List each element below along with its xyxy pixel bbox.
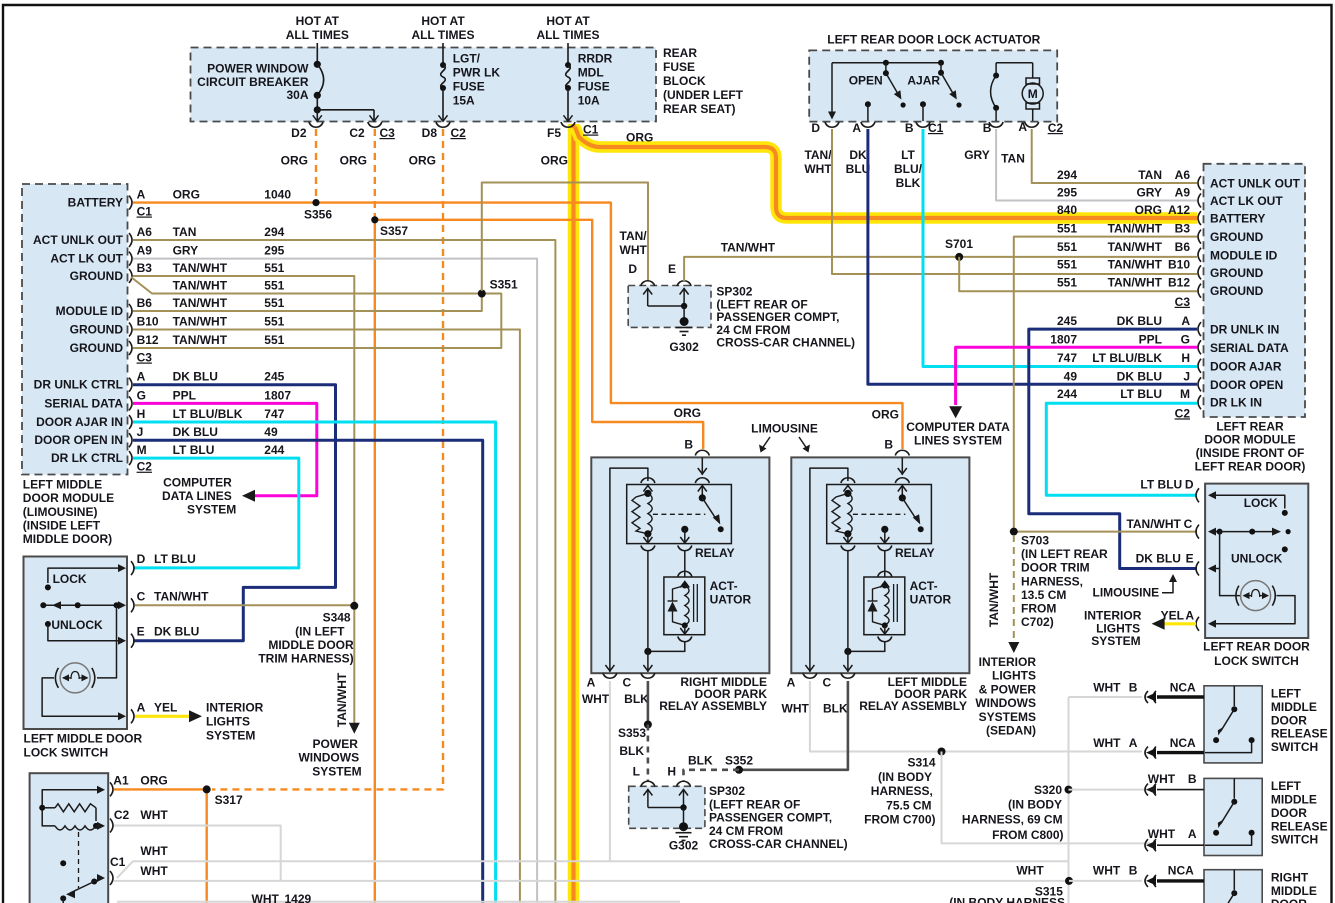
svg-text:FROM: FROM xyxy=(1021,602,1056,616)
wire LT BLU/BLK 747: module H down page xyxy=(133,422,496,903)
wire DK BLU 245: module A to left lock switch E xyxy=(133,385,336,641)
svg-text:ACT UNLK OUT: ACT UNLK OUT xyxy=(1210,177,1301,191)
svg-text:HOT AT: HOT AT xyxy=(546,14,590,28)
junction S317 xyxy=(203,785,243,807)
svg-text:A: A xyxy=(137,700,146,714)
svg-text:RIGHT: RIGHT xyxy=(1271,870,1309,884)
svg-text:PASSENGER COMPT,: PASSENGER COMPT, xyxy=(709,811,832,825)
svg-text:DOOR OPEN IN: DOOR OPEN IN xyxy=(34,433,123,447)
labels ORG on highlighted wire xyxy=(541,131,654,168)
arrow + label COMPUTER DATA LINES SYSTEM (right) xyxy=(906,406,1010,448)
svg-text:LOCK SWITCH: LOCK SWITCH xyxy=(24,746,109,760)
wire WHT long row (upper) from C1 to right network xyxy=(117,861,1069,878)
svg-text:AJAR: AJAR xyxy=(907,73,940,87)
svg-text:295: 295 xyxy=(1057,186,1077,200)
wire WHT row to release switch 3 B xyxy=(1069,880,1142,882)
actuator: LEFT REAR DOOR LOCK ACTUATOR (box) xyxy=(809,50,1057,121)
svg-text:245: 245 xyxy=(264,370,284,384)
svg-text:295: 295 xyxy=(264,244,284,258)
svg-text:LT BLU/BLK: LT BLU/BLK xyxy=(1092,351,1162,365)
svg-text:ORG: ORG xyxy=(140,774,167,788)
svg-text:POWER: POWER xyxy=(313,737,359,751)
svg-text:TAN/WHT: TAN/WHT xyxy=(1126,517,1181,531)
svg-text:ACT LK OUT: ACT LK OUT xyxy=(50,252,123,266)
svg-text:SERIAL DATA: SERIAL DATA xyxy=(1210,341,1289,355)
svg-text:GROUND: GROUND xyxy=(1210,284,1264,298)
svg-text:YEL: YEL xyxy=(154,700,177,714)
svg-text:294: 294 xyxy=(264,225,284,239)
svg-text:LEFT REAR DOOR LOCK ACTUATOR: LEFT REAR DOOR LOCK ACTUATOR xyxy=(827,33,1040,47)
junction S314 + label (IN BODY HARNESS, 75.5 CM FROM C700) xyxy=(864,748,945,827)
svg-text:1807: 1807 xyxy=(1050,332,1077,346)
svg-text:S351: S351 xyxy=(490,278,518,292)
svg-text:75.5 CM: 75.5 CM xyxy=(886,798,931,812)
svg-text:24 CM FROM: 24 CM FROM xyxy=(709,824,783,838)
labels B at relay top pins xyxy=(684,438,893,452)
svg-text:MODULE ID: MODULE ID xyxy=(1210,248,1278,262)
svg-text:COMPUTER: COMPUTER xyxy=(163,476,232,490)
labels WHT B NCA / WHT A NCA (switch 1) xyxy=(1093,680,1196,750)
svg-text:BLK: BLK xyxy=(688,754,713,768)
svg-text:245: 245 xyxy=(1057,314,1077,328)
wire WHT vertical trunk x=1068.5 xyxy=(1068,697,1070,903)
svg-text:UATOR: UATOR xyxy=(910,592,952,606)
svg-text:294: 294 xyxy=(1057,168,1077,182)
svg-text:ORG: ORG xyxy=(409,154,436,168)
svg-text:E: E xyxy=(1186,551,1194,565)
svg-text:PPL: PPL xyxy=(173,388,196,402)
wire WHT row to release switch 2 A xyxy=(1069,842,1151,844)
svg-text:ORG: ORG xyxy=(541,154,568,168)
svg-text:RRDR: RRDR xyxy=(578,52,613,66)
svg-text:SWITCH: SWITCH xyxy=(1271,833,1318,847)
svg-text:HARNESS,: HARNESS, xyxy=(871,784,933,798)
svg-text:D: D xyxy=(1185,477,1194,491)
svg-text:WHT: WHT xyxy=(582,692,610,706)
svg-text:J: J xyxy=(1183,369,1190,383)
svg-text:(INSIDE FRONT OF: (INSIDE FRONT OF xyxy=(1196,446,1305,460)
label LIMOUSINE with arrow to DK BLU wire xyxy=(1093,574,1177,600)
svg-text:TAN/WHT: TAN/WHT xyxy=(987,572,1001,627)
svg-text:840: 840 xyxy=(1057,203,1077,217)
fuse block pin brackets and labels D2 C2 C3 D8 C2 F5 C1 xyxy=(291,122,561,140)
svg-text:S317: S317 xyxy=(215,793,243,807)
wire GRY 295: module A9 down page xyxy=(133,259,537,903)
svg-text:TAN/WHT: TAN/WHT xyxy=(173,279,228,293)
svg-text:WHT: WHT xyxy=(1016,864,1044,878)
svg-text:ORG: ORG xyxy=(674,406,701,420)
svg-text:D: D xyxy=(811,121,820,135)
svg-text:C702): C702) xyxy=(1021,615,1054,629)
svg-text:DOOR: DOOR xyxy=(1271,713,1307,727)
svg-text:B: B xyxy=(1129,864,1138,878)
svg-text:B: B xyxy=(1188,772,1197,786)
svg-text:OPEN: OPEN xyxy=(849,73,883,87)
svg-text:244: 244 xyxy=(1057,387,1077,401)
svg-text:PPL: PPL xyxy=(1139,332,1162,346)
svg-text:UATOR: UATOR xyxy=(710,592,752,606)
svg-text:GRY: GRY xyxy=(173,244,199,258)
svg-text:B: B xyxy=(1129,680,1138,694)
right lock switch internals xyxy=(1208,491,1295,628)
svg-text:(IN BODY HARNESS: (IN BODY HARNESS xyxy=(949,896,1065,903)
svg-text:D: D xyxy=(137,552,146,566)
svg-text:A9: A9 xyxy=(1175,186,1191,200)
arrow + label COMPUTER DATA LINES SYSTEM (left) xyxy=(162,476,255,517)
svg-text:DK BLU: DK BLU xyxy=(173,370,218,384)
wire DK BLU: actuator A down to connector J row (DOOR OPEN) xyxy=(868,129,1197,384)
svg-text:C3: C3 xyxy=(1175,295,1191,309)
svg-text:A: A xyxy=(137,188,146,202)
svg-text:TAN/WHT: TAN/WHT xyxy=(173,315,228,329)
svg-text:NCA: NCA xyxy=(1170,680,1196,694)
svg-text:LT BLU/BLK: LT BLU/BLK xyxy=(173,407,243,421)
svg-text:WHT: WHT xyxy=(1093,864,1121,878)
svg-text:C: C xyxy=(137,589,146,603)
svg-text:C2: C2 xyxy=(349,126,365,140)
junction S353 + dashed BLK to SP302 L xyxy=(618,721,652,759)
junction S351 xyxy=(478,278,518,298)
bottom-left switch internals: resistor, coil, arm xyxy=(39,786,105,903)
svg-text:M: M xyxy=(137,443,147,457)
svg-text:CROSS-CAR CHANNEL): CROSS-CAR CHANNEL) xyxy=(716,336,855,350)
svg-text:GROUND: GROUND xyxy=(1210,266,1264,280)
svg-text:MIDDLE: MIDDLE xyxy=(1271,700,1317,714)
wire BLK: left relay C down, left to S352 xyxy=(741,681,848,770)
svg-text:WHT: WHT xyxy=(804,162,832,176)
connector module: LEFT REAR DOOR MODULE (box) xyxy=(1204,164,1306,417)
svg-text:B10: B10 xyxy=(1168,257,1190,271)
svg-text:ORG: ORG xyxy=(173,188,200,202)
svg-text:10A: 10A xyxy=(578,94,600,108)
wire TAN/WHT: SP302 E up to S701 row (B6) xyxy=(684,257,1197,281)
svg-text:A1: A1 xyxy=(113,774,129,788)
svg-text:A: A xyxy=(1129,736,1138,750)
svg-text:TAN: TAN xyxy=(1138,168,1162,182)
svg-text:551: 551 xyxy=(264,333,284,347)
wire TAN/WHT 551: connector B3 riser down to S703 xyxy=(1014,237,1197,532)
label TAN/WHT rotated + arrow to POWER WINDOWS SYSTEM xyxy=(298,672,361,778)
svg-text:D: D xyxy=(628,262,637,276)
svg-text:49: 49 xyxy=(1064,369,1078,383)
ground G302 (lower) xyxy=(669,822,699,852)
svg-text:DK BLU: DK BLU xyxy=(154,625,199,639)
right connector pin rows: numbers, colours, pins, names xyxy=(1050,168,1300,420)
label LEFT MIDDLE DOOR MODULE (LIMOUSINE) (INSIDE LEFT MIDDLE DOOR) xyxy=(23,478,114,546)
wire TAN/WHT 551 B6: module to S351 stub xyxy=(133,294,482,312)
wire YEL: left lock switch A to interior lights arrow xyxy=(135,715,190,718)
svg-text:DR LK CTRL: DR LK CTRL xyxy=(51,451,123,465)
svg-text:TAN/WHT: TAN/WHT xyxy=(173,296,228,310)
svg-text:LEFT REAR: LEFT REAR xyxy=(1216,419,1284,433)
junction S320 + label (IN BODY HARNESS, 69 CM FROM C800) xyxy=(962,783,1073,842)
label SP302 (LEFT REAR OF PASSENGER COMPT, 24 CM FROM CROSS-CAR CHANNEL) upper xyxy=(716,285,855,350)
svg-text:ORG: ORG xyxy=(340,154,367,168)
label LEFT REAR DOOR LOCK SWITCH xyxy=(1203,640,1310,668)
svg-text:A: A xyxy=(852,121,861,135)
wire WHT: right relay A down to long row xyxy=(609,681,611,861)
wire TAN/WHT 551 B10: module down page xyxy=(133,330,520,903)
svg-text:BLK: BLK xyxy=(624,692,649,706)
svg-text:GROUND: GROUND xyxy=(70,323,124,337)
svg-text:LEFT: LEFT xyxy=(1271,687,1302,701)
svg-text:LOCK: LOCK xyxy=(53,572,87,586)
svg-text:CIRCUIT BREAKER: CIRCUIT BREAKER xyxy=(197,75,309,89)
svg-text:A9: A9 xyxy=(137,244,153,258)
svg-text:C2: C2 xyxy=(114,808,130,822)
svg-text:F5: F5 xyxy=(547,126,561,140)
svg-text:NCA: NCA xyxy=(1170,736,1196,750)
svg-text:H: H xyxy=(1181,351,1190,365)
svg-text:FUSE: FUSE xyxy=(578,80,610,94)
labels WHT B NCA (switch 3) xyxy=(1093,864,1194,878)
svg-text:DOOR OPEN: DOOR OPEN xyxy=(1210,378,1283,392)
svg-text:TAN: TAN xyxy=(173,225,197,239)
svg-text:H: H xyxy=(667,765,676,779)
wire ORG: S357 drop down page xyxy=(374,220,376,903)
svg-text:FROM C700): FROM C700) xyxy=(864,812,935,826)
svg-text:(IN LEFT REAR: (IN LEFT REAR xyxy=(1021,547,1108,561)
splice SP302 upper (box) xyxy=(628,286,711,328)
svg-text:C1: C1 xyxy=(583,123,599,137)
junction S357 xyxy=(371,216,408,238)
svg-text:RELAY: RELAY xyxy=(895,546,935,560)
wire ORG 840 highlighted branch to right connector BATTERY A12 xyxy=(575,127,1197,218)
SP302 upper internals: pins D,E to ground xyxy=(628,262,691,322)
svg-text:& POWER: & POWER xyxy=(979,682,1037,696)
labels WHT at right network xyxy=(1016,864,1044,878)
svg-text:551: 551 xyxy=(1057,276,1077,290)
switch: bottom-left window switch (partial box) xyxy=(30,773,109,903)
svg-text:WHT: WHT xyxy=(252,892,280,903)
svg-text:BLK: BLK xyxy=(823,702,848,716)
svg-text:551: 551 xyxy=(1057,222,1077,236)
svg-text:(LEFT REAR OF: (LEFT REAR OF xyxy=(709,797,800,811)
svg-text:LEFT MIDDLE DOOR: LEFT MIDDLE DOOR xyxy=(24,732,143,746)
svg-text:S356: S356 xyxy=(304,208,332,222)
SP302 lower internals: pins L,H to ground xyxy=(633,765,691,827)
svg-text:TAN/WHT: TAN/WHT xyxy=(1108,240,1163,254)
svg-text:ACT-: ACT- xyxy=(910,579,938,593)
fuse LGT/PWR LK FUSE 15A xyxy=(439,52,501,122)
svg-text:C3: C3 xyxy=(380,126,396,140)
wire WHT: switch C2 down to lower row xyxy=(114,826,281,881)
fuse RRDR MDL FUSE 10A xyxy=(564,52,613,122)
svg-text:BLU/: BLU/ xyxy=(894,162,923,176)
junction S315 + label xyxy=(949,877,1073,903)
svg-text:A6: A6 xyxy=(1175,168,1191,182)
wire ORG 840 highlighted (yellow) vertical from fuse F5 to bottom xyxy=(568,124,580,903)
svg-text:551: 551 xyxy=(1057,257,1077,271)
wire TAN/WHT: S701 drop to B12 row xyxy=(959,257,1197,291)
svg-text:S703: S703 xyxy=(1021,534,1049,548)
wire PPL 1807: connector G to computer data lines arrow (right) xyxy=(956,347,1197,405)
svg-text:B: B xyxy=(905,121,914,135)
svg-text:E: E xyxy=(137,625,145,639)
wire DK BLU 49: module J down page xyxy=(133,440,483,903)
svg-text:LT BLU: LT BLU xyxy=(173,443,215,457)
svg-text:SYSTEM: SYSTEM xyxy=(206,729,255,743)
svg-text:D2: D2 xyxy=(291,126,307,140)
svg-text:MIDDLE DOOR: MIDDLE DOOR xyxy=(268,638,354,652)
left lock switch internals: LOCK/UNLOCK contacts, arm, lamp xyxy=(40,564,126,720)
rear fuse block (box) xyxy=(191,48,657,122)
svg-text:(IN LEFT: (IN LEFT xyxy=(295,624,345,638)
wire LT BLU 244: connector M to right lock switch D xyxy=(1046,403,1197,495)
svg-text:B6: B6 xyxy=(137,296,153,310)
svg-text:A: A xyxy=(1018,120,1027,134)
svg-text:BATTERY: BATTERY xyxy=(68,196,123,210)
svg-text:INTERIOR: INTERIOR xyxy=(979,655,1037,669)
wire ORG: switch A1 to S317 and down page xyxy=(114,788,207,790)
wire WHT long row (lower) from C1 to S315 xyxy=(114,880,1069,882)
svg-text:M: M xyxy=(1028,87,1038,101)
svg-text:WHT: WHT xyxy=(140,844,168,858)
wire WHT: S314 drop to switch2 A row xyxy=(942,752,1069,844)
svg-text:1807: 1807 xyxy=(264,388,291,402)
svg-text:(SEDAN): (SEDAN) xyxy=(986,724,1036,738)
svg-text:C3: C3 xyxy=(137,351,153,365)
node HOT AT ALL TIMES feed x=317.3 xyxy=(286,14,349,65)
svg-text:(LIMOUSINE): (LIMOUSINE) xyxy=(23,505,98,519)
svg-text:S320: S320 xyxy=(1034,783,1062,797)
svg-text:H: H xyxy=(137,407,146,421)
svg-text:C2: C2 xyxy=(451,126,467,140)
svg-text:GRY: GRY xyxy=(964,148,990,162)
svg-text:747: 747 xyxy=(264,407,284,421)
svg-text:SYSTEM: SYSTEM xyxy=(187,503,236,517)
svg-text:DOOR AJAR IN: DOOR AJAR IN xyxy=(36,415,123,429)
switch: LEFT REAR DOOR LOCK SWITCH (box) xyxy=(1205,484,1308,638)
svg-text:WINDOWS: WINDOWS xyxy=(975,696,1036,710)
svg-text:B12: B12 xyxy=(1168,276,1190,290)
svg-text:DK BLU: DK BLU xyxy=(173,425,218,439)
labels ORG at relay B drops xyxy=(674,406,899,422)
svg-text:FUSE: FUSE xyxy=(663,60,695,74)
svg-text:LIGHTS: LIGHTS xyxy=(206,715,250,729)
svg-text:ACT LK OUT: ACT LK OUT xyxy=(1210,194,1283,208)
svg-text:C2: C2 xyxy=(1175,406,1191,420)
label LIMOUSINE with arrows to both relay assemblies xyxy=(751,422,818,453)
svg-text:B: B xyxy=(884,438,893,452)
svg-text:TAN/WHT: TAN/WHT xyxy=(721,241,776,255)
svg-text:M: M xyxy=(1180,387,1190,401)
label S703 (IN LEFT REAR DOOR TRIM HARNESS, 13.5 CM FROM C702) xyxy=(1021,534,1108,630)
svg-text:SERIAL DATA: SERIAL DATA xyxy=(44,396,123,410)
svg-text:MIDDLE: MIDDLE xyxy=(1271,884,1317,898)
wire TAN/WHT 551 spur: module B3 to S351 xyxy=(131,277,482,294)
svg-text:GROUND: GROUND xyxy=(1210,230,1264,244)
svg-text:WINDOWS: WINDOWS xyxy=(298,751,359,765)
svg-text:B12: B12 xyxy=(137,333,159,347)
svg-text:FUSE: FUSE xyxy=(453,80,485,94)
svg-text:1040: 1040 xyxy=(264,188,291,202)
svg-text:ORG: ORG xyxy=(872,408,899,422)
svg-text:DR UNLK IN: DR UNLK IN xyxy=(1210,323,1279,337)
wire ORG dashed from breaker C3 to S357 xyxy=(374,129,376,217)
svg-text:MDL: MDL xyxy=(578,66,604,80)
actuator internals: OPEN and AJAR switches xyxy=(828,60,962,121)
svg-text:C1: C1 xyxy=(928,121,944,135)
label LEFT MIDDLE DOOR LOCK SWITCH xyxy=(24,732,143,760)
svg-text:A: A xyxy=(1185,609,1194,623)
svg-text:HARNESS, 69 CM: HARNESS, 69 CM xyxy=(962,813,1063,827)
svg-text:GROUND: GROUND xyxy=(70,269,124,283)
svg-text:ALL TIMES: ALL TIMES xyxy=(286,28,349,42)
arrow + label INTERIOR LIGHTS SYSTEM (right) xyxy=(1084,609,1165,649)
svg-text:S701: S701 xyxy=(945,237,973,251)
wire TAN: actuator A down to connector A6 row (ACT UNLK OUT) xyxy=(1032,129,1197,183)
svg-text:TAN/: TAN/ xyxy=(620,229,648,243)
svg-text:B10: B10 xyxy=(137,315,159,329)
svg-text:A12: A12 xyxy=(1168,203,1190,217)
svg-text:COMPUTER DATA: COMPUTER DATA xyxy=(906,420,1010,434)
svg-text:LT BLU: LT BLU xyxy=(1140,477,1182,491)
svg-text:13.5 CM: 13.5 CM xyxy=(1021,588,1066,602)
svg-text:HOT AT: HOT AT xyxy=(296,14,340,28)
svg-text:A6: A6 xyxy=(137,225,153,239)
svg-text:551: 551 xyxy=(264,261,284,275)
svg-text:REAR: REAR xyxy=(663,46,697,60)
svg-text:551: 551 xyxy=(264,279,284,293)
svg-text:MODULE ID: MODULE ID xyxy=(56,304,124,318)
wire ORG 1040: module A to S356, on to left relay B pin xyxy=(133,203,903,449)
svg-text:SYSTEM: SYSTEM xyxy=(1091,634,1140,648)
wire GRY: actuator B down to connector A9 row (ACT LK OUT) xyxy=(996,129,1197,201)
junction S701 xyxy=(945,237,973,261)
svg-text:B: B xyxy=(684,438,693,452)
svg-text:LT: LT xyxy=(901,148,915,162)
svg-text:DK BLU: DK BLU xyxy=(1136,551,1181,565)
wire WHT row to release switch 1 B xyxy=(1069,696,1143,698)
labels WHT B / WHT A (switch 2) xyxy=(1148,772,1197,841)
svg-text:TAN/WHT: TAN/WHT xyxy=(154,589,209,603)
svg-text:DR LK IN: DR LK IN xyxy=(1210,396,1262,410)
svg-text:ACT-: ACT- xyxy=(710,579,738,593)
svg-text:LIMOUSINE: LIMOUSINE xyxy=(751,422,818,436)
svg-text:SWITCH: SWITCH xyxy=(1271,740,1318,754)
wire LT BLU 244: module M to left lock switch D xyxy=(133,458,299,568)
svg-text:TRIM HARNESS): TRIM HARNESS) xyxy=(258,652,353,666)
svg-text:LIMOUSINE: LIMOUSINE xyxy=(1093,586,1160,600)
wire LT BLU/BLK: actuator B down to connector H row (DOOR AJAR) xyxy=(923,129,1197,367)
svg-text:DR UNLK CTRL: DR UNLK CTRL xyxy=(34,378,123,392)
junction S703 + wire TAN/WHT to right lock switch C xyxy=(1014,531,1197,533)
connector module: LEFT MIDDLE DOOR MODULE (box) xyxy=(22,184,128,475)
svg-text:DOOR AJAR: DOOR AJAR xyxy=(1210,359,1282,373)
svg-text:B: B xyxy=(983,121,992,135)
svg-text:MIDDLE DOOR): MIDDLE DOOR) xyxy=(23,532,112,546)
switch: RIGHT MIDDLE DOOR RELEASE SWITCH (3, cut) xyxy=(1145,870,1317,903)
svg-text:A: A xyxy=(1188,827,1197,841)
wire ORG dashed from breaker D2 to S356 xyxy=(315,129,317,200)
svg-text:551: 551 xyxy=(264,315,284,329)
svg-text:GRY: GRY xyxy=(1136,186,1162,200)
svg-text:BLOCK: BLOCK xyxy=(663,74,706,88)
wire TAN/WHT dashed below S703 with arrow (SEDAN systems) xyxy=(1013,535,1015,642)
svg-text:B3: B3 xyxy=(1175,222,1191,236)
svg-text:CROSS-CAR CHANNEL): CROSS-CAR CHANNEL) xyxy=(709,837,848,851)
left module pin rows: names, pins, wire colours, circuit numbers xyxy=(33,188,291,474)
svg-text:ORG: ORG xyxy=(626,131,653,145)
svg-text:TAN/WHT: TAN/WHT xyxy=(335,672,349,727)
svg-text:C1: C1 xyxy=(110,855,126,869)
svg-text:SP302: SP302 xyxy=(709,784,745,798)
relay assembly: RIGHT MIDDLE DOOR PARK RELAY ASSEMBLY xyxy=(587,450,770,713)
svg-text:TAN/WHT: TAN/WHT xyxy=(1108,257,1163,271)
svg-text:G: G xyxy=(137,388,146,402)
svg-text:B6: B6 xyxy=(1175,240,1191,254)
